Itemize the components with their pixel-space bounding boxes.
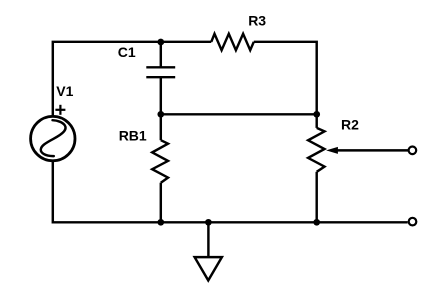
wire middle horizontal [161, 113, 317, 115]
wire RB1 bottom stub [160, 183, 162, 223]
wire RB1 top stub [160, 114, 162, 140]
wire R2 bottom stub [315, 172, 317, 223]
terminal bottom out [409, 218, 417, 226]
node at ground tap [205, 219, 212, 226]
voltage source V1 [31, 116, 75, 160]
node at R2 bottom [313, 219, 320, 226]
svg-text:RB1: RB1 [119, 128, 147, 144]
node at mid rail right [313, 111, 320, 118]
potentiometer R2 [308, 128, 324, 172]
ground [195, 222, 222, 280]
svg-text:V1: V1 [56, 83, 73, 99]
wire bottom rail [53, 161, 408, 222]
node at C1 top [157, 39, 164, 46]
capacitor C1 [146, 67, 175, 77]
terminal wiper out [409, 147, 417, 155]
wire C1 top stub [160, 42, 162, 68]
V1 plus sign [55, 105, 65, 115]
wire top-left from V1 up and across to R3 [53, 42, 212, 117]
wire R2 top stub [315, 114, 317, 128]
svg-text:R2: R2 [341, 117, 359, 133]
R2 wiper arrow [326, 147, 408, 154]
node at RB1 bottom [157, 219, 164, 226]
node at C1 bottom / mid rail left [157, 111, 164, 118]
svg-text:C1: C1 [118, 44, 136, 60]
wire C1 bottom stub [160, 77, 162, 114]
wire R3 right to top-right corner, down to mid-right node [254, 42, 317, 115]
svg-text:R3: R3 [248, 12, 266, 28]
resistor RB1 [152, 140, 168, 183]
resistor R3 [211, 34, 254, 50]
